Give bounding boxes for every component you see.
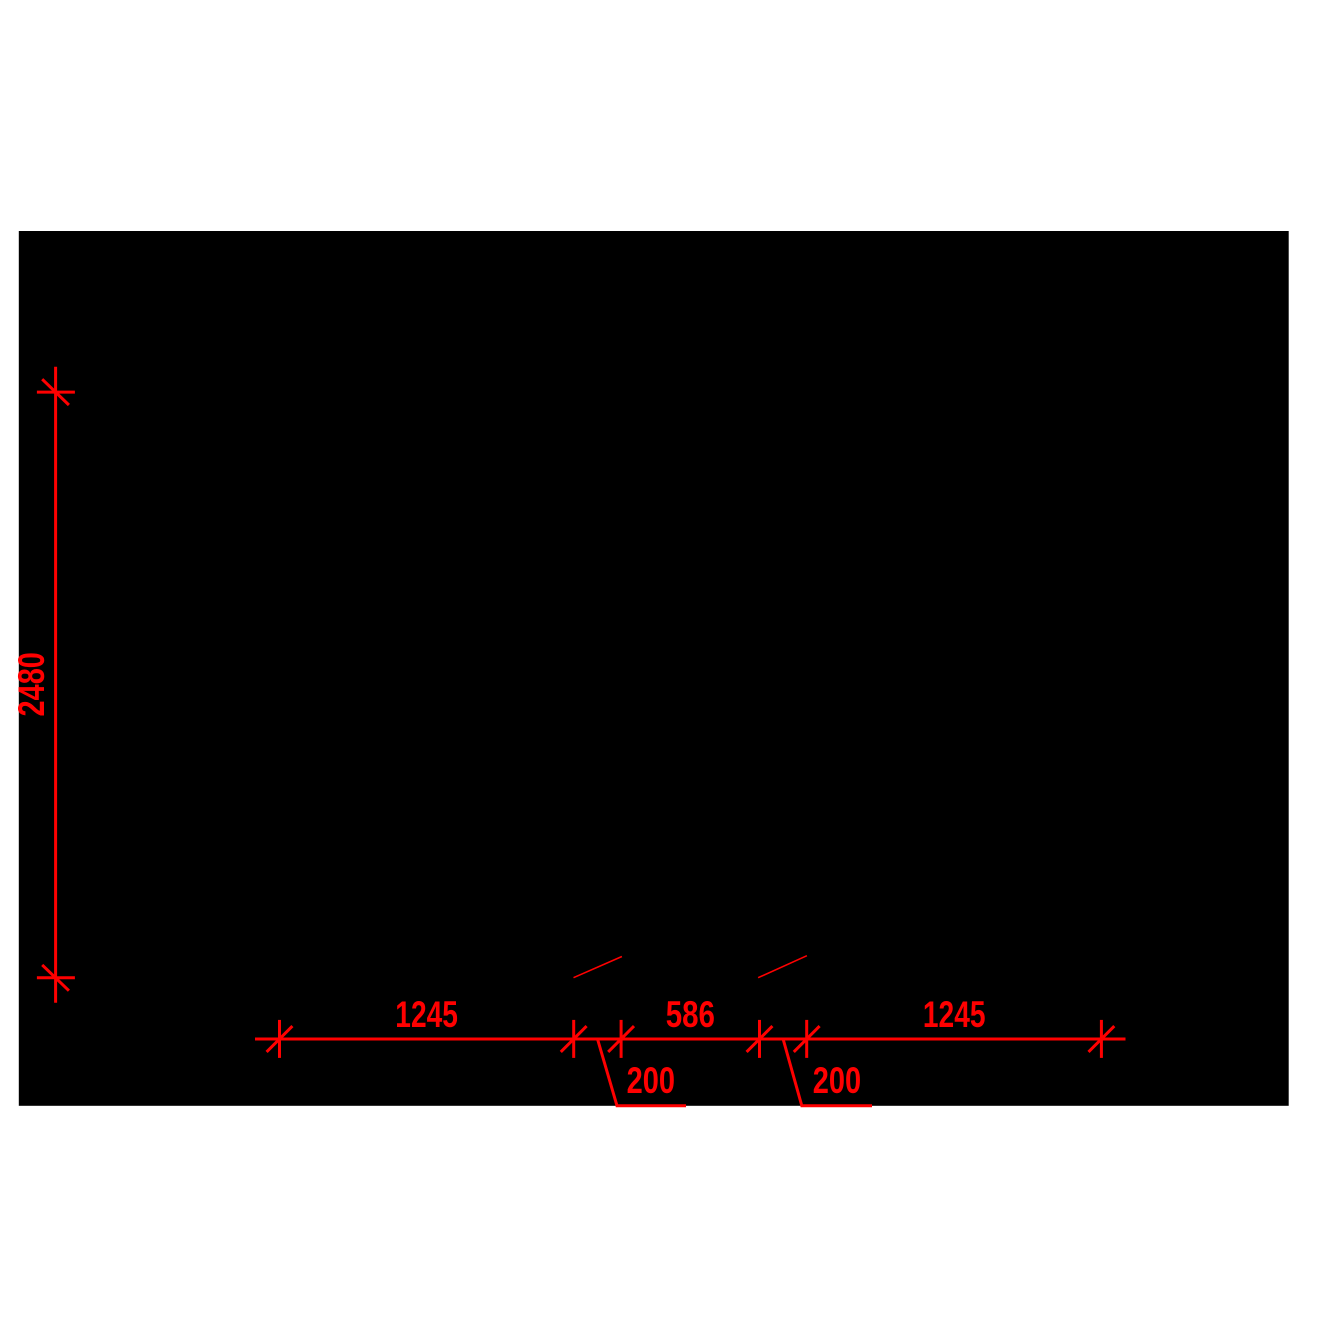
svg-text:1245: 1245 [923, 994, 986, 1035]
tick bottom of vertical dimension [37, 965, 75, 991]
tick 2 at x=573.7 [561, 1020, 587, 1058]
tick 1 at x=279.5 [267, 1020, 293, 1058]
svg-text:200: 200 [813, 1060, 861, 1101]
svg-text:2480: 2480 [11, 652, 52, 716]
tick 6 at x=1101.4 [1089, 1020, 1115, 1058]
leader line left 200 [598, 1039, 687, 1106]
tick 4 at x=759.5 [747, 1020, 773, 1058]
svg-text:1245: 1245 [395, 994, 458, 1035]
vertical dimension line (2480) [54, 367, 57, 1003]
tick 5 at x=806.7 [794, 1020, 820, 1058]
svg-text:586: 586 [666, 994, 715, 1035]
tick top of vertical dimension [37, 379, 75, 405]
leader line right 200 [783, 1039, 872, 1106]
svg-text:200: 200 [627, 1060, 675, 1101]
tick 3 at x=621.1 [608, 1020, 634, 1058]
horizontal dimension line (1245 / 200 / 586 / 200 / 1245) [255, 1038, 1126, 1041]
thin diagonal stroke right [758, 956, 807, 978]
thin diagonal stroke left [574, 957, 622, 978]
black panel (elevation silhouette) [19, 231, 1289, 1106]
